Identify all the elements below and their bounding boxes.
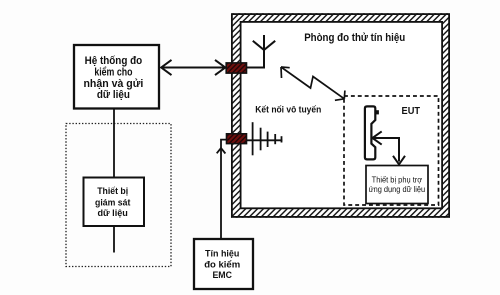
arrow: signal into phone and down to auxiliary box: [372, 131, 405, 164]
svg-text:Hệ thống đo: Hệ thống đo: [85, 55, 143, 67]
EUT dashed enclosure: [344, 96, 439, 205]
svg-text:kiểm cho: kiểm cho: [94, 66, 133, 78]
svg-text:Phòng đo thử tín hiệu: Phòng đo thử tín hiệu: [304, 32, 405, 44]
box: Thiết bị giám sát dữ liệu: [84, 178, 145, 227]
arrow wire: EMC signal box up to connector 2: [217, 140, 227, 239]
svg-text:EMC: EMC: [212, 270, 232, 281]
phone antenna nub: [375, 110, 379, 114]
svg-text:Thiết bị phụ trợ: Thiết bị phụ trợ: [372, 175, 423, 185]
dotted enclosure box: [66, 124, 171, 267]
svg-text:dữ liệu: dữ liệu: [97, 89, 130, 101]
phone (EUT device, side view): [365, 106, 375, 159]
wire: test system box down to monitor box: [113, 109, 115, 178]
svg-text:nhận và gửi: nhận và gửi: [83, 78, 143, 90]
svg-text:EUT: EUT: [402, 106, 421, 117]
svg-text:giám sát: giám sát: [95, 198, 130, 208]
wireless link zigzag double arrow: [281, 67, 345, 100]
svg-text:dữ liệu: dữ liệu: [97, 208, 127, 218]
double arrow: test system to feedthrough connector 1: [161, 60, 226, 75]
svg-text:Kết nối vô tuyến: Kết nối vô tuyến: [255, 104, 321, 114]
svg-text:Thiết bị: Thiết bị: [97, 186, 128, 196]
feedthrough connector 2: [227, 134, 247, 144]
box: Hệ thống đo kiểm cho nhận và gửi dữ liệu: [74, 45, 159, 109]
box: Tín hiệu đo kiểm EMC: [194, 239, 253, 289]
box: Thiết bị phụ trợ ứng dụng dữ liệu: [366, 166, 428, 204]
antenna 1 (whip antenna): [247, 35, 276, 68]
log-periodic antenna: [247, 122, 283, 155]
svg-text:Tín hiệu: Tín hiệu: [205, 248, 240, 259]
chamber wall (shielded room): [231, 13, 450, 218]
svg-text:ứng dụng dữ liệu: ứng dụng dữ liệu: [369, 184, 426, 194]
svg-text:đo kiểm: đo kiểm: [204, 259, 240, 270]
wire: stub below monitor box: [113, 226, 115, 253]
feedthrough connector 1: [226, 63, 246, 73]
